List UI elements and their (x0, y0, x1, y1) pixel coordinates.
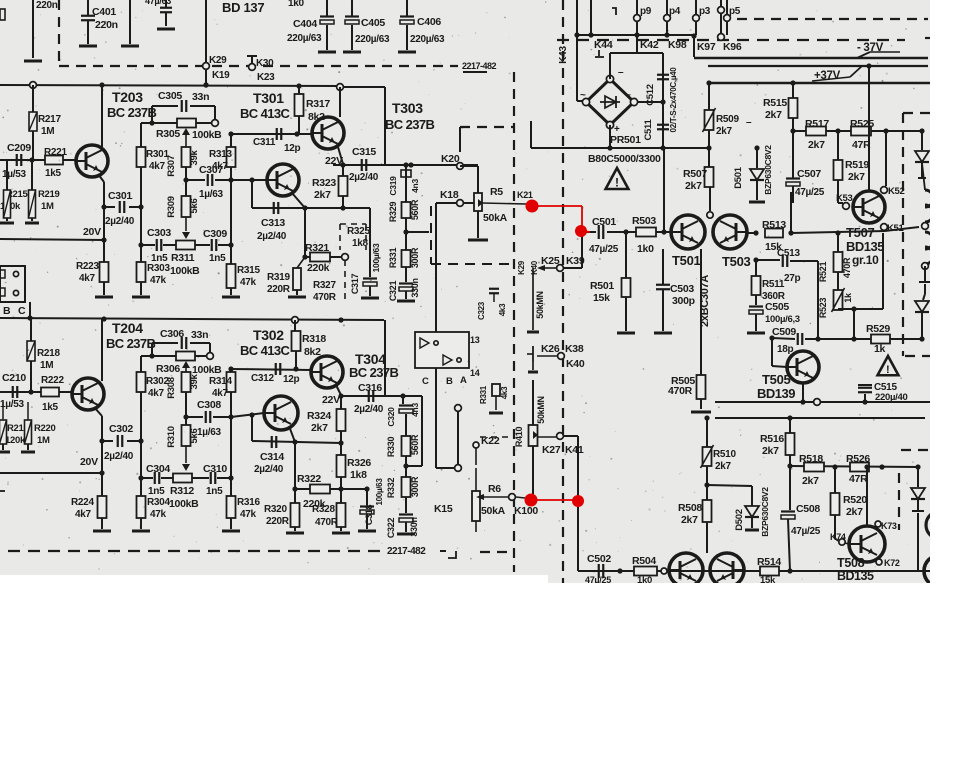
svg-text:C309: C309 (203, 228, 227, 240)
svg-text:R321: R321 (305, 242, 329, 254)
svg-text:4k7: 4k7 (75, 509, 92, 520)
svg-text:C322: C322 (386, 518, 396, 539)
svg-text:C508: C508 (796, 503, 820, 515)
svg-text:220µ/63: 220µ/63 (355, 34, 390, 45)
svg-text:R312: R312 (170, 485, 194, 497)
svg-text:K20: K20 (441, 153, 460, 165)
svg-text:C503: C503 (670, 283, 694, 295)
svg-text:5k6: 5k6 (189, 429, 200, 444)
svg-text:B80C5000/3300: B80C5000/3300 (588, 153, 661, 165)
svg-text:2k7: 2k7 (716, 126, 733, 137)
svg-text:2k7: 2k7 (314, 189, 331, 201)
svg-text:R525: R525 (850, 118, 874, 130)
svg-text:120k: 120k (5, 435, 26, 446)
svg-text:R316: R316 (237, 497, 260, 508)
svg-text:1M: 1M (40, 360, 53, 371)
svg-text:T503: T503 (722, 254, 751, 269)
svg-text:220k: 220k (303, 498, 326, 510)
svg-text:R303: R303 (147, 263, 170, 274)
svg-text:R331: R331 (388, 248, 398, 269)
svg-text:470R: 470R (313, 292, 337, 303)
svg-text:C312: C312 (251, 373, 274, 384)
svg-text:K38: K38 (565, 343, 584, 355)
svg-text:C302: C302 (109, 423, 133, 435)
svg-text:R508: R508 (678, 502, 702, 514)
svg-text:50kMN: 50kMN (535, 291, 545, 319)
svg-text:R223: R223 (76, 261, 99, 272)
svg-text:!: ! (886, 364, 889, 376)
svg-text:C323: C323 (477, 301, 486, 320)
svg-text:K97: K97 (697, 41, 716, 53)
svg-text:33n: 33n (191, 329, 208, 341)
svg-text:560R: 560R (410, 434, 420, 455)
svg-text:p4: p4 (669, 6, 681, 17)
svg-text:p9: p9 (640, 6, 652, 17)
svg-text:K40: K40 (566, 358, 585, 370)
svg-text:R515: R515 (763, 97, 787, 109)
svg-text:8k2: 8k2 (304, 346, 321, 358)
svg-text:12p: 12p (284, 143, 301, 154)
svg-text:R327: R327 (313, 280, 336, 291)
svg-text:C511: C511 (643, 118, 654, 140)
svg-text:R521: R521 (818, 262, 828, 283)
svg-text:B: B (3, 305, 11, 317)
svg-text:R317: R317 (306, 98, 330, 110)
svg-text:R529: R529 (866, 323, 890, 335)
svg-text:R322: R322 (297, 473, 321, 485)
svg-text:27p: 27p (784, 273, 801, 284)
svg-text:220µ/63: 220µ/63 (287, 33, 322, 44)
svg-text:2µ2/40: 2µ2/40 (349, 172, 379, 183)
svg-text:47R: 47R (849, 473, 868, 485)
svg-text:K27: K27 (542, 444, 561, 456)
svg-text:50kA: 50kA (481, 505, 506, 517)
svg-text:C: C (18, 305, 26, 317)
svg-text:1k0: 1k0 (637, 243, 654, 255)
svg-text:R310: R310 (166, 426, 177, 448)
svg-text:C513: C513 (777, 248, 800, 259)
svg-text:K42: K42 (640, 39, 659, 51)
svg-text:R511: R511 (762, 279, 785, 290)
svg-text:BC 237B: BC 237B (349, 365, 398, 380)
svg-text:C209: C209 (7, 142, 31, 154)
svg-text:C509: C509 (772, 326, 796, 338)
svg-text:R304: R304 (147, 497, 170, 508)
svg-text:20V: 20V (80, 456, 98, 468)
svg-text:300p: 300p (672, 295, 695, 307)
svg-text:C315: C315 (352, 146, 376, 158)
svg-text:47k: 47k (240, 509, 257, 520)
svg-text:1k0: 1k0 (288, 0, 305, 9)
svg-text:T508: T508 (837, 556, 865, 570)
svg-text:R331: R331 (479, 385, 488, 404)
svg-text:K25: K25 (541, 255, 560, 267)
svg-text:330n: 330n (410, 278, 420, 297)
svg-text:R308: R308 (166, 377, 177, 399)
svg-text:300R: 300R (410, 247, 420, 268)
svg-text:T302: T302 (253, 327, 284, 343)
svg-text:47µ/25: 47µ/25 (791, 526, 821, 537)
svg-text:220n: 220n (36, 0, 58, 11)
svg-text:R504: R504 (632, 555, 656, 567)
svg-text:47k: 47k (150, 275, 167, 286)
svg-text:T505: T505 (762, 372, 791, 387)
svg-text:BC 237B: BC 237B (107, 105, 156, 120)
svg-text:R220: R220 (34, 423, 56, 434)
svg-text:K30: K30 (256, 58, 274, 69)
svg-text:K23: K23 (257, 72, 275, 83)
svg-text:1n5: 1n5 (209, 253, 226, 264)
svg-text:12p: 12p (283, 374, 300, 385)
svg-text:C313: C313 (261, 217, 285, 229)
svg-text:220n: 220n (95, 19, 118, 31)
svg-text:D502: D502 (734, 509, 745, 531)
svg-text:R526: R526 (846, 453, 870, 465)
svg-text:2µ2/40: 2µ2/40 (104, 451, 134, 462)
svg-text:4k7: 4k7 (149, 161, 166, 172)
svg-text:47k: 47k (150, 509, 167, 520)
svg-text:1k8: 1k8 (350, 469, 367, 481)
svg-text:R222: R222 (41, 375, 64, 386)
svg-text:K39: K39 (566, 255, 585, 267)
svg-text:R507: R507 (683, 168, 707, 180)
svg-text:K100: K100 (514, 505, 538, 517)
svg-text:C303: C303 (147, 227, 171, 239)
svg-text:C401: C401 (92, 6, 116, 18)
svg-text:R313: R313 (209, 149, 232, 160)
svg-text:100kB: 100kB (170, 265, 200, 277)
svg-text:4k7: 4k7 (148, 388, 165, 399)
svg-text:K29: K29 (517, 260, 526, 275)
svg-text:BC 237B: BC 237B (106, 336, 155, 351)
svg-text:1M: 1M (37, 435, 50, 446)
svg-text:C318: C318 (364, 505, 374, 526)
svg-text:R320: R320 (264, 504, 287, 515)
svg-text:C502: C502 (587, 553, 611, 565)
svg-text:~: ~ (580, 90, 586, 101)
svg-text:C301: C301 (108, 190, 132, 202)
svg-text:!: ! (615, 176, 619, 190)
svg-text:A: A (460, 375, 467, 386)
svg-text:C512: C512 (645, 84, 656, 106)
svg-text:K29: K29 (209, 55, 227, 66)
svg-text:R309: R309 (166, 196, 177, 218)
svg-text:4k7: 4k7 (212, 388, 229, 399)
svg-text:470R: 470R (668, 385, 693, 397)
svg-text:4k3: 4k3 (500, 386, 509, 399)
svg-text:C210: C210 (2, 372, 26, 384)
svg-text:K53: K53 (836, 193, 853, 204)
svg-text:T301: T301 (253, 90, 284, 106)
svg-text:C320: C320 (386, 407, 396, 427)
svg-text:470R: 470R (842, 257, 852, 278)
svg-text:14: 14 (470, 368, 480, 378)
svg-text:300R: 300R (410, 476, 420, 497)
svg-text:R329: R329 (388, 202, 398, 223)
svg-text:33n: 33n (192, 91, 209, 103)
svg-text:R516: R516 (760, 433, 784, 445)
svg-text:BD135: BD135 (846, 239, 884, 254)
svg-text:BZP630C8V2: BZP630C8V2 (763, 145, 773, 195)
svg-text:R219: R219 (38, 189, 60, 200)
svg-text:BZP630C8V2: BZP630C8V2 (760, 487, 770, 537)
svg-text:100µ/6,3: 100µ/6,3 (765, 314, 800, 325)
svg-text:R305: R305 (156, 128, 180, 140)
svg-text:BD139: BD139 (757, 386, 795, 401)
svg-text:K41: K41 (565, 444, 584, 456)
svg-text:R311: R311 (171, 252, 195, 264)
svg-text:R218: R218 (37, 348, 60, 359)
svg-text:R323: R323 (312, 177, 336, 189)
svg-text:R224: R224 (71, 497, 94, 508)
svg-text:T203: T203 (112, 89, 143, 105)
svg-text:22V: 22V (322, 394, 340, 406)
svg-text:R314: R314 (209, 376, 232, 387)
svg-text:C308: C308 (197, 399, 221, 411)
svg-text:47µ/25: 47µ/25 (589, 244, 619, 255)
svg-text:PR501: PR501 (610, 134, 641, 146)
svg-text:R523: R523 (818, 298, 828, 319)
svg-text:–: – (746, 117, 752, 128)
svg-text:1k: 1k (874, 343, 886, 355)
svg-text:R324: R324 (307, 410, 331, 422)
svg-text:R6: R6 (488, 483, 501, 495)
svg-text:C404: C404 (293, 18, 317, 30)
svg-text:C317: C317 (350, 274, 360, 295)
svg-text:220µ/63: 220µ/63 (410, 34, 445, 45)
svg-text:R326: R326 (347, 457, 371, 469)
svg-text:R325: R325 (347, 226, 370, 237)
svg-text:1k5: 1k5 (45, 168, 62, 179)
svg-text:R510: R510 (713, 449, 736, 460)
svg-text:K21: K21 (517, 190, 533, 200)
svg-text:1M: 1M (41, 201, 54, 212)
svg-text:R217: R217 (38, 114, 61, 125)
svg-text:2217-482: 2217-482 (387, 546, 426, 557)
svg-text:R315: R315 (237, 265, 260, 276)
svg-text:R519: R519 (845, 159, 869, 171)
svg-text:2µ2/40: 2µ2/40 (354, 404, 384, 415)
svg-text:K43: K43 (558, 46, 569, 64)
svg-text:13: 13 (470, 335, 480, 345)
svg-text:C319: C319 (388, 176, 398, 196)
svg-text:K40: K40 (530, 260, 539, 275)
svg-text:2µ2/40: 2µ2/40 (257, 231, 287, 242)
svg-text:D501: D501 (733, 166, 744, 189)
svg-text:K19: K19 (212, 70, 230, 81)
svg-text:100µ/63: 100µ/63 (371, 243, 381, 272)
svg-text:R517: R517 (805, 118, 829, 130)
svg-text:–: – (618, 67, 624, 78)
svg-text:C: C (422, 376, 429, 387)
svg-text:C316: C316 (358, 382, 382, 394)
svg-text:50kA: 50kA (483, 212, 508, 224)
svg-text:1n5: 1n5 (206, 486, 223, 497)
svg-text:C405: C405 (361, 17, 385, 29)
svg-text:K72: K72 (884, 558, 900, 568)
svg-text:K26: K26 (541, 343, 560, 355)
svg-text:C314: C314 (260, 451, 284, 463)
svg-text:C505: C505 (765, 301, 789, 313)
svg-text:R307: R307 (166, 155, 177, 177)
svg-text:BC 413C: BC 413C (240, 106, 290, 121)
svg-text:K96: K96 (723, 41, 742, 53)
svg-text:1M: 1M (41, 126, 54, 137)
svg-text:15k: 15k (593, 292, 610, 304)
svg-text:220R: 220R (267, 284, 291, 295)
svg-text:100kB: 100kB (192, 129, 222, 141)
svg-text:~: ~ (625, 90, 631, 101)
svg-text:100kB: 100kB (192, 364, 222, 376)
svg-text:1µ/63: 1µ/63 (197, 427, 221, 438)
svg-text:C406: C406 (417, 16, 441, 28)
svg-text:4n3: 4n3 (410, 179, 420, 193)
svg-text:K15: K15 (434, 503, 453, 515)
svg-text:2k7: 2k7 (715, 461, 732, 472)
svg-text:2k7: 2k7 (765, 109, 782, 121)
svg-text:4k3: 4k3 (498, 303, 507, 316)
svg-text:50kMN: 50kMN (536, 396, 546, 424)
svg-text:2µ2/40: 2µ2/40 (105, 216, 135, 227)
svg-text:2k7: 2k7 (802, 475, 819, 487)
svg-text:1µ/63: 1µ/63 (199, 189, 223, 200)
svg-text:1n5: 1n5 (148, 486, 165, 497)
svg-text:2k7: 2k7 (808, 139, 825, 151)
svg-text:T501: T501 (672, 253, 701, 268)
svg-text:2k7: 2k7 (846, 506, 863, 518)
svg-text:1k5: 1k5 (42, 402, 59, 413)
svg-text:p5: p5 (729, 6, 741, 17)
svg-text:39k: 39k (189, 374, 200, 390)
svg-text:18p: 18p (777, 344, 794, 355)
svg-text:R5: R5 (490, 186, 503, 198)
svg-text:2k7: 2k7 (681, 514, 698, 526)
svg-text:1µ/53: 1µ/53 (2, 169, 26, 180)
svg-text:R330: R330 (386, 437, 396, 458)
svg-text:BC 237B: BC 237B (385, 117, 434, 132)
svg-text:2k7: 2k7 (848, 171, 865, 183)
svg-text:4k7: 4k7 (79, 273, 96, 284)
svg-text:4n3: 4n3 (410, 403, 420, 417)
svg-text:BD135: BD135 (837, 569, 874, 583)
svg-text:220k: 220k (307, 262, 330, 274)
svg-text:BD 137: BD 137 (222, 0, 264, 15)
svg-text:K74: K74 (830, 532, 846, 542)
svg-text:100µ/63: 100µ/63 (375, 478, 384, 506)
svg-text:B: B (446, 376, 453, 387)
svg-text:R501: R501 (590, 280, 614, 292)
svg-text:BC 413C: BC 413C (240, 343, 290, 358)
svg-text:47µ/63: 47µ/63 (145, 0, 171, 6)
svg-text:2k7: 2k7 (311, 422, 328, 434)
svg-text:gr.10: gr.10 (852, 253, 879, 267)
svg-text:220R: 220R (266, 516, 290, 527)
svg-text:5k6: 5k6 (189, 199, 200, 214)
svg-text:R503: R503 (632, 215, 656, 227)
svg-text:330n: 330n (409, 517, 419, 536)
svg-text:2k7: 2k7 (762, 445, 779, 457)
svg-text:K98: K98 (668, 39, 687, 51)
svg-text:470R: 470R (315, 517, 339, 528)
svg-text:R332: R332 (386, 478, 396, 499)
svg-text:C305: C305 (158, 90, 182, 102)
svg-text:47µ/25: 47µ/25 (795, 187, 825, 198)
svg-text:C321: C321 (388, 281, 398, 302)
svg-text:K44: K44 (594, 39, 613, 51)
svg-text:R513: R513 (762, 219, 786, 231)
svg-text:C311: C311 (253, 137, 276, 148)
svg-text:- 37V: - 37V (857, 42, 884, 54)
svg-text:R318: R318 (302, 333, 326, 345)
svg-text:20V: 20V (83, 226, 101, 238)
svg-text:2k7: 2k7 (685, 180, 702, 192)
svg-text:2µ2/40: 2µ2/40 (254, 464, 284, 475)
svg-text:R520: R520 (843, 494, 867, 506)
svg-text:100kB: 100kB (169, 498, 199, 510)
svg-text:02/T-S-2x470C,µ40: 02/T-S-2x470C,µ40 (669, 67, 678, 133)
svg-text:T204: T204 (112, 320, 143, 336)
svg-text:2217-482: 2217-482 (462, 61, 497, 71)
svg-text:C501: C501 (592, 216, 616, 228)
svg-text:47k: 47k (240, 277, 257, 288)
svg-text:K73: K73 (881, 521, 897, 531)
svg-text:R518: R518 (799, 453, 823, 465)
svg-text:K18: K18 (440, 189, 459, 201)
svg-text:1k: 1k (843, 292, 853, 303)
svg-text:R319: R319 (267, 272, 290, 283)
svg-text:C507: C507 (797, 168, 821, 180)
svg-text:p3: p3 (699, 6, 711, 17)
svg-text:R509: R509 (716, 114, 739, 125)
svg-text:R306: R306 (156, 363, 180, 375)
svg-text:560R: 560R (410, 199, 420, 220)
